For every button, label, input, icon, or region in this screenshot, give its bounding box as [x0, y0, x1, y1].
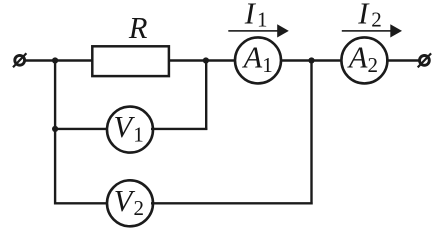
wire: V2 to bottom right corner	[151, 202, 313, 204]
wire: bottom left horizontal to V2	[54, 202, 109, 204]
ammeter A2	[341, 37, 387, 83]
voltmeter V2	[107, 180, 153, 226]
wire: left rail to voltmeter V1	[55, 128, 109, 130]
node: junction dot at V1 branch top	[203, 57, 209, 63]
node: junction dot between A1 and A2 (V2 branch top)	[308, 57, 314, 63]
wire: right vertical from V2 branch up to junction	[310, 61, 312, 205]
wire: resistor to ammeter A1	[169, 59, 236, 61]
wire: V1 branch vertical up to top wire	[205, 61, 207, 131]
node: junction dot left top	[52, 57, 58, 63]
wire: A2 to right terminal	[386, 59, 419, 61]
resistor R	[92, 46, 169, 76]
terminal: right output (circle with slash)	[418, 53, 431, 67]
voltmeter V1	[107, 107, 153, 153]
wire: A1 to A2	[280, 59, 343, 61]
wire: left vertical rail	[54, 61, 56, 205]
wire: left terminal to resistor	[26, 59, 93, 61]
svg-text:R: R	[128, 11, 148, 45]
current arrow I2	[342, 0, 402, 38]
ammeter A1	[235, 37, 281, 83]
wire: V1 to corner	[151, 128, 207, 130]
terminal: left input (circle with slash)	[13, 53, 26, 67]
node: junction dot on left rail at V1 branch	[52, 126, 58, 132]
current arrow I1	[228, 0, 288, 38]
